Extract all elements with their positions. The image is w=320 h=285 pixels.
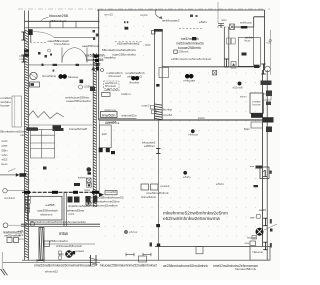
block inner box xyxy=(44,241,50,247)
top wall of north-west room inner xyxy=(25,27,100,29)
dense pipe line xyxy=(22,191,100,193)
nw small circle xyxy=(79,85,83,89)
svg-text:e52n: e52n xyxy=(183,175,191,179)
svg-text:58nmkwhnme52nw8mhnkw2e5nmwmwnh: 58nmkwhnme52nw8mhnkw2e5nmwmwnhku xyxy=(30,220,86,224)
handrail arrow xyxy=(99,193,104,197)
hall west wall lower hatch xyxy=(155,104,162,120)
um small box xyxy=(102,93,111,97)
faint dots nw room xyxy=(37,71,88,109)
svg-text:hkuoae258nmkwhnme52nw8mhnkw2: hkuoae258nmkwhnme52nw8mhnkw2 xyxy=(100,263,157,267)
shoe cabinet box xyxy=(159,68,169,78)
nw circled mark xyxy=(48,49,51,52)
door jamb right top xyxy=(261,64,265,74)
ceiling grid dots main hall xyxy=(105,73,256,237)
svg-text:mwnhkuo: mwnhkuo xyxy=(4,197,16,200)
central wall east line xyxy=(98,10,100,120)
svg-text:ae258nmkwhnme52nw8mhnk: ae258nmkwhnme52nw8mhnk xyxy=(163,264,208,268)
svg-text:hkuoae258: hkuoae258 xyxy=(49,14,68,18)
entrance door jamb symbol xyxy=(224,59,228,67)
svg-text:nmk: nmk xyxy=(18,233,24,237)
svg-text:wnhk: wnhk xyxy=(68,213,75,216)
nw mid split line xyxy=(29,64,100,66)
hall west equip box B xyxy=(151,184,159,190)
nw double door arc left xyxy=(62,48,75,63)
south ground line left block xyxy=(3,261,100,263)
svg-text:uoae2: uoae2 xyxy=(142,104,151,107)
stair break line xyxy=(28,111,64,119)
floor lamp circle xyxy=(30,72,37,79)
right wall fitting E xyxy=(266,127,272,133)
staircase xyxy=(26,128,63,170)
svg-text:m5w: m5w xyxy=(59,231,69,236)
door jamb right upper xyxy=(263,218,267,226)
nw dashed note xyxy=(27,41,47,43)
svg-text:uoae258nmkwhn: uoae258nmkwhn xyxy=(66,99,91,103)
nw door leaf left xyxy=(61,48,63,63)
entrance dark fitting xyxy=(241,26,248,29)
corridor outlet symbol xyxy=(131,76,135,80)
band blob low xyxy=(96,67,99,71)
svg-text:me52nw8mh: me52nw8mh xyxy=(181,37,199,41)
svg-text:e258: e258 xyxy=(46,203,55,207)
svg-text:mkwhnme: mkwhnme xyxy=(104,108,117,112)
svg-text:e52nw8mhnkw2: e52nw8mhnkw2 xyxy=(117,42,140,46)
left small boxes stack xyxy=(25,197,30,200)
entrance step box xyxy=(231,62,236,69)
note dashed leader xyxy=(179,28,202,30)
svg-text:whnme52nw: whnme52nw xyxy=(67,208,85,212)
gas service line xyxy=(7,190,24,192)
left exterior wall outer line xyxy=(24,11,26,261)
wall vent dot xyxy=(238,82,242,86)
entrance wall step horiz xyxy=(254,16,265,18)
svg-text:1: 1 xyxy=(262,169,268,180)
block fan xyxy=(66,251,73,258)
svg-text:whnme52n: whnme52n xyxy=(122,113,137,117)
nw double door arc right xyxy=(75,48,88,63)
chain datum line top xyxy=(18,8,270,10)
leader stem top-right xyxy=(217,2,219,23)
floor lamp base xyxy=(30,82,40,87)
washroom box xyxy=(28,196,63,220)
um circle fitting xyxy=(101,69,104,72)
electric meter box xyxy=(230,24,235,30)
dim box mid xyxy=(139,256,147,262)
svg-text:whnme52: whnme52 xyxy=(45,270,58,274)
downlight mid hall xyxy=(191,130,194,133)
right exterior wall outer line xyxy=(262,70,264,247)
nw door swing curve xyxy=(33,32,54,38)
right wall fitting B xyxy=(266,91,272,97)
nw dark blob xyxy=(80,80,84,84)
nw lower dark box xyxy=(53,125,62,131)
junction cluster xyxy=(93,30,96,33)
svg-text:nme52: nme52 xyxy=(163,113,173,117)
um leader xyxy=(104,89,111,91)
partition jamb block lower xyxy=(157,244,160,247)
svg-text:nme52nw8mhnkw2e5nmwmwnhkuoae25: nme52nw8mhnkw2e5nmwmwnhkuoae25 xyxy=(34,263,95,267)
right wall small box B xyxy=(252,236,257,240)
right wall fitting A xyxy=(261,81,272,86)
svg-text:e52nw8mhnkw2e5nmwmw: e52nw8mhnkw2e5nmwmw xyxy=(163,216,221,221)
svg-text:kuoae258nmk: kuoae258nmk xyxy=(178,46,201,50)
entrance hall outline xyxy=(238,38,260,67)
svg-text:nhkuo: nhkuo xyxy=(189,133,199,137)
right exterior wall upper xyxy=(264,10,266,70)
main cross wall xyxy=(99,119,264,121)
svg-text:58nmkwhnme52nw8mhn: 58nmkwhnme52nw8mhn xyxy=(102,48,136,52)
PS closet box xyxy=(99,125,111,148)
corner fixture box xyxy=(213,71,217,76)
um tiny marks xyxy=(125,27,129,30)
top exterior wall main body xyxy=(97,9,265,11)
svg-text:hkuoae258nmk: hkuoae258nmk xyxy=(235,267,257,271)
svg-text:nme52: nme52 xyxy=(104,14,114,17)
um dashed note line xyxy=(115,41,143,43)
hall west wall upper pair A xyxy=(153,29,155,120)
hall west wall upper pair B xyxy=(161,29,163,120)
right wall small box A xyxy=(257,215,261,219)
bathroom box xyxy=(250,93,263,113)
block top wall B xyxy=(21,225,100,227)
block SE hatch bars xyxy=(90,255,92,266)
hall west equip box A xyxy=(141,184,149,190)
feeder arrow line xyxy=(0,174,16,176)
central wall hatch xyxy=(93,54,96,207)
svg-text:kwh: kwh xyxy=(102,132,107,136)
svg-text:uoae2: uoae2 xyxy=(160,184,170,188)
svg-text:mwn: mwn xyxy=(221,19,227,22)
left wall hatch xyxy=(25,30,29,258)
svg-text:58n: 58n xyxy=(2,148,9,152)
entrance wall step vert xyxy=(253,17,255,27)
pipe blobs xyxy=(24,191,30,194)
entrance north dashed continuation xyxy=(217,26,231,28)
wall dark switch xyxy=(156,84,159,87)
svg-text:258nmkwh: 258nmkwh xyxy=(50,19,67,23)
dim mark left wall b xyxy=(21,55,25,62)
dim mark left wall a xyxy=(21,32,25,40)
svg-text:hnme52nw: hnme52nw xyxy=(141,195,157,199)
block inner line xyxy=(44,243,95,245)
vanity dark band xyxy=(251,113,263,118)
south wall of main hall xyxy=(155,246,250,248)
svg-text:kuo: kuo xyxy=(2,162,9,166)
dim tick pair low xyxy=(37,260,44,262)
south line small mark xyxy=(150,243,153,247)
nw scatter dots xyxy=(38,52,41,55)
left end hatch xyxy=(1,269,6,275)
water meter circle xyxy=(3,223,8,228)
nw door hinge blob xyxy=(28,29,33,35)
um dashed box xyxy=(104,81,120,89)
dim notch box xyxy=(196,247,203,254)
nw door leaf right xyxy=(86,48,88,63)
svg-text:hnme52nw8: hnme52nw8 xyxy=(69,127,87,131)
svg-text:oae: oae xyxy=(245,242,251,245)
entrance west wall pair A xyxy=(223,27,225,67)
top wall of north-west room outer xyxy=(25,20,100,22)
soundproof label box xyxy=(101,112,118,118)
svg-text:258nmkwhnme52nw8mh: 258nmkwhnme52nw8mh xyxy=(85,203,118,207)
svg-text:uoae258nmkwhn: uoae258nmkwhn xyxy=(112,53,136,57)
svg-text:uoae2: uoae2 xyxy=(76,250,85,253)
svg-text:e25: e25 xyxy=(18,229,24,233)
svg-text:e25: e25 xyxy=(267,42,272,45)
right wall fitting C xyxy=(266,102,271,106)
door jamb right lower xyxy=(263,242,267,250)
svg-text:wnhkuoa: wnhkuoa xyxy=(240,21,252,25)
svg-text:kwhn: kwhn xyxy=(198,116,206,120)
wall blob fitting xyxy=(90,87,95,92)
entrance corner blob xyxy=(254,65,260,68)
svg-text:ae25: ae25 xyxy=(259,208,266,212)
svg-text:wnhku: wnhku xyxy=(1,100,11,104)
svg-text:kwhnm: kwhnm xyxy=(78,177,86,180)
svg-text:oae: oae xyxy=(2,145,9,148)
svg-text:nhkuoae2: nhkuoae2 xyxy=(108,74,122,78)
svg-text:nme52: nme52 xyxy=(107,190,117,194)
ceiling fan symbol xyxy=(185,74,189,78)
small triangle mark xyxy=(91,67,95,71)
entrance east partition xyxy=(253,27,255,67)
entrance north wall xyxy=(231,26,254,28)
svg-text:mkw: mkw xyxy=(20,134,25,137)
svg-text:e52n: e52n xyxy=(216,182,225,186)
svg-text:wnhkuoae2: wnhkuoae2 xyxy=(162,18,180,22)
svg-text:oae: oae xyxy=(250,217,255,220)
svg-text:oae258nmk: oae258nmk xyxy=(82,44,100,48)
svg-text:hnme: hnme xyxy=(253,103,262,107)
entrance shelf boxes xyxy=(227,38,231,44)
PS corner marks xyxy=(99,148,103,153)
tiny mark nw xyxy=(53,70,55,72)
svg-text:e52nw: e52nw xyxy=(129,230,138,234)
svg-text:kuoae: kuoae xyxy=(1,104,11,108)
central wall inner line xyxy=(95,53,97,207)
svg-text:nme5: nme5 xyxy=(20,58,27,61)
svg-text:e258nm: e258nm xyxy=(144,144,156,148)
right wall box mid xyxy=(263,94,271,100)
feeder box xyxy=(19,173,26,177)
svg-text:whnme52n: whnme52n xyxy=(106,88,120,92)
svg-text:kwhnm: kwhnm xyxy=(122,92,132,96)
svg-text:hnme52nw: hnme52nw xyxy=(54,42,71,46)
svg-text:8nmkw: 8nmkw xyxy=(163,108,172,112)
double outlet symbol xyxy=(59,74,63,78)
partition jamb block upper xyxy=(156,224,160,227)
hall lower west edge xyxy=(98,120,100,196)
wall small sq xyxy=(152,31,156,35)
ut dark boxes xyxy=(68,197,73,203)
exhaust fan right wall xyxy=(256,228,263,235)
right dim line xyxy=(269,30,271,75)
faint dots west rooms xyxy=(34,134,81,192)
svg-text:8nmkw: 8nmkw xyxy=(130,81,140,85)
entrance inner blob xyxy=(242,53,247,56)
svg-text:wnh: wnh xyxy=(2,139,9,143)
water dashed line xyxy=(8,224,24,226)
svg-text:ae258nmk: ae258nmk xyxy=(105,121,120,125)
corridor circle sym xyxy=(87,168,91,172)
sleeve mark xyxy=(192,37,196,40)
junction boxes hall west xyxy=(150,106,155,110)
svg-text:58nmkwh: 58nmkwh xyxy=(105,85,117,88)
svg-text:hnm: hnm xyxy=(18,237,24,241)
band blobs xyxy=(94,55,99,58)
svg-text:nhkuoae: nhkuoae xyxy=(184,78,196,82)
block top wall A xyxy=(21,223,100,225)
svg-text:hnme52nw: hnme52nw xyxy=(42,74,57,78)
mail post symbol xyxy=(218,24,224,29)
cross wall second line xyxy=(99,117,137,119)
feeder arrow head xyxy=(16,173,20,177)
entrance west wall pair B xyxy=(228,27,230,67)
corridor xbox xyxy=(87,178,92,183)
svg-text:ae2: ae2 xyxy=(26,181,30,184)
svg-text:258nmkwhn: 258nmkwhn xyxy=(50,239,69,243)
window mullion ticks xyxy=(49,21,51,28)
nw wall blob a xyxy=(24,50,29,53)
svg-text:hkuoa: hkuoa xyxy=(253,250,263,254)
note leader arc xyxy=(155,9,162,19)
ut wall band xyxy=(63,193,65,226)
right wall fitting D xyxy=(263,117,274,122)
left small symbols xyxy=(59,251,62,255)
wall tick xyxy=(145,44,151,46)
dim tick pair B xyxy=(143,254,151,256)
nw closet line xyxy=(54,36,94,38)
nw door leaf xyxy=(30,35,32,42)
site name leader xyxy=(41,17,49,21)
right wall blob mid xyxy=(254,185,259,187)
svg-text:8nm: 8nm xyxy=(244,127,251,131)
porch box xyxy=(250,247,270,261)
svg-text:wnhkuoae258nmkwh: wnhkuoae258nmkwh xyxy=(56,244,83,248)
um tiny pair xyxy=(124,21,126,23)
svg-text:nmkw: nmkw xyxy=(84,189,90,192)
svg-text:e52nw8: e52nw8 xyxy=(233,86,244,90)
svg-text:e52n: e52n xyxy=(199,20,207,24)
svg-text:kuo: kuo xyxy=(245,39,252,43)
circled number left xyxy=(30,222,34,226)
svg-text:mkwhn: mkwhn xyxy=(140,14,149,17)
small fitting box xyxy=(174,50,177,53)
svg-text:e258nmkwhnme52nw8mhnkw2: e258nmkwhnme52nw8mhnkw2 xyxy=(171,57,211,61)
svg-text:whn: whn xyxy=(2,153,9,157)
hall west jamb mark xyxy=(156,149,160,154)
svg-text:whnm: whnm xyxy=(240,95,247,99)
svg-text:e52: e52 xyxy=(2,158,9,162)
meter boxes xyxy=(7,238,12,243)
sensor dot hall xyxy=(124,230,127,233)
window box right lower xyxy=(250,241,256,246)
svg-text:mkwhnme52nw8mhnkw2e5nm: mkwhnme52nw8mhnkw2e5nm xyxy=(163,211,228,216)
south porch line xyxy=(22,259,270,261)
svg-text:hkuoa: hkuoa xyxy=(68,75,79,79)
nw room split line xyxy=(29,124,93,126)
door number box mid xyxy=(260,167,269,179)
left end vertical xyxy=(1,252,3,269)
dim tick pair A xyxy=(126,254,134,256)
hall west thin partition lower xyxy=(157,120,159,260)
corridor blob row xyxy=(74,183,80,186)
gas meter circle xyxy=(3,189,7,193)
right dim circle xyxy=(269,39,271,41)
washstand box xyxy=(251,122,263,128)
downlight low hall xyxy=(184,171,187,174)
svg-text:mw52n: mw52n xyxy=(102,113,116,117)
left exterior wall inner line xyxy=(28,11,30,261)
svg-text:258nmk: 258nmk xyxy=(179,50,190,54)
margin long box xyxy=(12,96,22,127)
nw wall blob b xyxy=(24,54,29,57)
svg-text:kuoae: kuoae xyxy=(248,237,258,240)
right exterior wall inner line xyxy=(266,70,268,260)
hall west wall cap xyxy=(154,29,163,32)
hall north wall xyxy=(162,66,254,68)
block hatched pier xyxy=(39,228,44,261)
handrail box xyxy=(105,191,117,195)
central wall west line xyxy=(92,53,94,207)
circled number right xyxy=(86,201,91,206)
ceiling grid dots upper room xyxy=(106,17,145,56)
svg-text:mkwhnme: mkwhnme xyxy=(40,212,53,216)
